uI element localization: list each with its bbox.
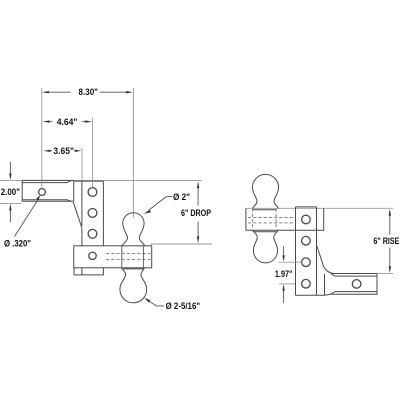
channel hole 2 (right) bbox=[302, 236, 311, 245]
dimension 2.00" vertical line top bbox=[9, 162, 11, 174]
extension line through pin hole bbox=[41, 88, 43, 188]
shank inner top wall line bbox=[22, 181, 71, 183]
leader arrowhead at 2 inch ball bbox=[144, 210, 151, 214]
hitch ball 2-5/16 inch (bottom, left view) bbox=[120, 268, 147, 303]
dimension 1.97" upper arrowhead bbox=[282, 255, 284, 262]
channel hole 2 bbox=[88, 209, 97, 218]
dimension 6 RISE vertical line upper bbox=[389, 216, 391, 235]
hidden thread line lower (right) bbox=[248, 222, 294, 224]
svg-text:Ø 2": Ø 2" bbox=[173, 192, 190, 202]
shank tube (left view) bbox=[22, 180, 74, 201]
leader line for 2 inch ball bbox=[149, 197, 173, 211]
centerline of 2 inch ball bbox=[132, 88, 134, 218]
hidden ball stud left edge (right) bbox=[252, 209, 254, 230]
dimension 6 RISE top arrowhead bbox=[389, 209, 391, 216]
svg-text:4.64": 4.64" bbox=[57, 117, 78, 127]
ball platform bar (left view) bbox=[74, 246, 152, 268]
hitch ball 2-5/16 inch (top, right view) bbox=[252, 174, 278, 208]
shank inner top wall line (right) bbox=[331, 274, 377, 277]
washer line under platform (right) bbox=[253, 231, 277, 233]
hidden ball stud right edge (right) bbox=[275, 209, 277, 230]
channel top edge (right) bbox=[296, 206, 317, 208]
svg-text:Ø .320": Ø .320" bbox=[4, 238, 31, 248]
shank pin hole (right) bbox=[352, 280, 361, 289]
svg-text:8.30": 8.30" bbox=[79, 87, 99, 97]
channel hole 1 (right) bbox=[302, 215, 311, 224]
hitch ball 2 inch (top, left view) bbox=[122, 213, 145, 246]
svg-text:6" DROP: 6" DROP bbox=[181, 208, 211, 218]
extension tick at hole 3 (right) bbox=[279, 261, 302, 263]
dimension 1.97" lower line bbox=[283, 291, 285, 303]
bracket gusset diagonal (right) bbox=[317, 246, 334, 274]
extension line: top of platform to rise dimension bbox=[246, 207, 393, 209]
channel right edge bbox=[102, 181, 104, 246]
extension line: top of platform to drop dimension bbox=[150, 243, 212, 245]
bottom chamfer to shank (right) bbox=[325, 294, 331, 295]
dimension 8.30" line right segment bbox=[100, 91, 126, 93]
shank pin hole bbox=[39, 189, 46, 196]
extension line: shank top to rise dimension bbox=[377, 273, 393, 275]
ball stud right edge through platform bbox=[143, 246, 145, 268]
channel hole 3 bbox=[88, 229, 97, 238]
dimension 8.30" left arrowhead bbox=[42, 91, 49, 93]
dimension 2.00" vertical line bottom bbox=[9, 210, 11, 222]
ball stud left edge through platform bbox=[121, 246, 123, 268]
channel top edge bbox=[74, 180, 104, 182]
dimension 6 DROP vertical line lower bbox=[197, 222, 199, 237]
dimension 8.30" line left segment bbox=[49, 91, 71, 93]
hitch ball 2 inch (bottom, right view) bbox=[253, 230, 279, 263]
shank inner bottom wall line bbox=[22, 200, 71, 201]
dimension 1.97" lower arrowhead bbox=[282, 284, 284, 291]
washer line on platform top (right) bbox=[253, 209, 277, 211]
channel left edge (right) bbox=[295, 207, 297, 295]
channel hole 4 (right) bbox=[302, 279, 311, 288]
svg-text:1.97": 1.97" bbox=[275, 269, 293, 279]
dimension 3.65" left arrowhead bbox=[43, 150, 50, 152]
leader arrowhead at pin hole bbox=[36, 195, 40, 200]
dimension 4.64" right arrowhead bbox=[85, 120, 92, 122]
channel stub below platform bbox=[74, 268, 103, 275]
channel bottom edge (right) bbox=[296, 294, 325, 296]
shank tube (right view) bbox=[330, 274, 377, 295]
dimension 3.65" right arrowhead bbox=[75, 150, 82, 152]
hidden thread line upper (right) bbox=[248, 217, 294, 219]
hidden thread line upper bbox=[106, 252, 150, 254]
extension line: top of shank (left view) bbox=[0, 179, 202, 181]
bracket plate edge (right) bbox=[324, 274, 326, 295]
channel hole 4 seen through platform bbox=[89, 252, 96, 259]
dimension 2.00" top arrowhead bbox=[9, 173, 11, 180]
leader arrowhead at 2-5/16 ball bbox=[144, 298, 150, 303]
hidden thread line lower bbox=[106, 259, 150, 261]
dimension 4.64" line left segment bbox=[50, 121, 53, 123]
channel hole 3 (right) bbox=[302, 258, 311, 267]
dimension 2.00" bottom arrowhead bbox=[9, 204, 11, 211]
channel right edge (right) bbox=[316, 207, 318, 295]
washer line under platform bbox=[122, 268, 145, 270]
extension tick at hole 4 (right) bbox=[279, 283, 295, 285]
svg-text:2.00": 2.00" bbox=[1, 187, 20, 197]
bracket face plate (left view) bbox=[73, 180, 75, 201]
extension line: bottom of shank (left view) bbox=[0, 202, 21, 204]
dimension 6 RISE vertical line lower bbox=[389, 248, 391, 267]
bracket gusset diagonal bbox=[73, 202, 82, 246]
dimension 4.64" left arrowhead bbox=[43, 120, 50, 122]
dimension 4.64" line right segment bbox=[82, 121, 85, 123]
dimension 6 DROP top arrowhead bbox=[197, 181, 199, 188]
ball platform bar (right view) bbox=[246, 208, 324, 230]
leader line for 2-5/16 ball bbox=[146, 299, 164, 306]
dimension 6 DROP bottom arrowhead bbox=[197, 236, 199, 243]
leader line for .320 hole bbox=[15, 198, 39, 236]
dimension 8.30" right arrowhead bbox=[126, 91, 133, 93]
svg-text:3.65": 3.65" bbox=[53, 146, 74, 156]
channel hole 1 bbox=[88, 188, 97, 197]
extension line: channel hole centerline bbox=[92, 118, 94, 187]
dimension 1.97" upper line bbox=[283, 246, 285, 255]
channel left edge bbox=[81, 181, 83, 226]
extension line: channel left edge bbox=[81, 148, 83, 180]
dimension 3.65" line left segment bbox=[50, 150, 52, 152]
dimension 6 DROP vertical line upper bbox=[197, 188, 199, 206]
svg-text:6" RISE: 6" RISE bbox=[373, 236, 399, 246]
dimension 6 RISE bottom arrowhead bbox=[389, 266, 391, 273]
shank inner bottom wall line (right) bbox=[331, 292, 377, 294]
svg-text:Ø 2-5/16": Ø 2-5/16" bbox=[166, 301, 201, 311]
